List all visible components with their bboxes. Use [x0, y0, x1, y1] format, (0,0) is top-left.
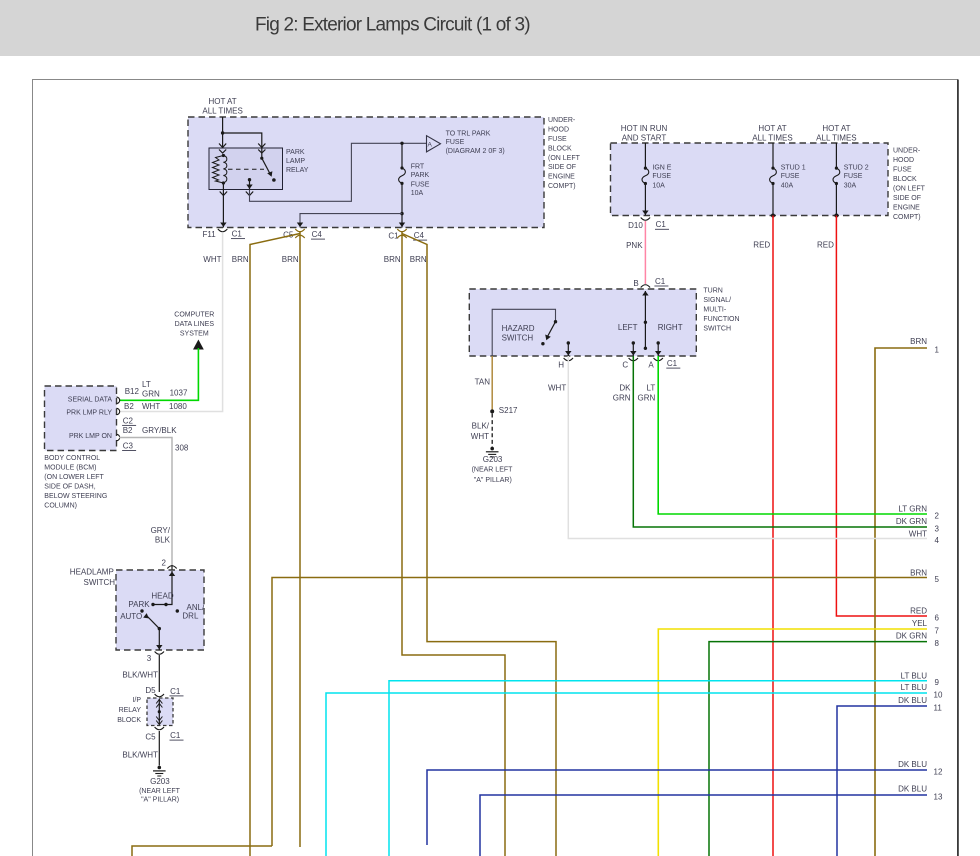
wire BRN from C1C4 via jog to x505 [402, 231, 505, 856]
connector cup D10 [641, 218, 650, 221]
turn signal lever tip dot [644, 347, 647, 350]
pin C1 underline (D10) [655, 228, 669, 230]
svg-text:BRN: BRN [410, 255, 427, 264]
svg-text:C1: C1 [170, 731, 181, 740]
connector cup B entry [641, 285, 650, 288]
node fuse bottom junction [400, 212, 403, 215]
node AUTO contact [140, 609, 143, 612]
svg-text:COMPUTERDATA LINESSYSTEM: COMPUTERDATA LINESSYSTEM [174, 311, 214, 337]
headlamp feed wire inside [153, 571, 172, 605]
ground G203 (near headlamp) [153, 766, 166, 776]
relay switch blade arrowhead [267, 171, 272, 177]
svg-text:RED: RED [817, 241, 834, 250]
svg-text:RED: RED [753, 241, 770, 250]
svg-text:1: 1 [935, 346, 940, 355]
svg-text:C1: C1 [655, 277, 666, 286]
connector cup headlamp entry [167, 566, 176, 569]
connector chevrons C5 brown [295, 229, 304, 238]
svg-text:C3: C3 [123, 441, 134, 450]
relay linkage dashed [228, 168, 264, 170]
relay switch wire from top [261, 148, 263, 158]
svg-text:BRN: BRN [232, 255, 249, 264]
svg-text:GRY/BLK: GRY/BLK [142, 426, 177, 435]
wire RED stud1 down [772, 216, 774, 856]
turn signal lever mid dot [644, 321, 647, 324]
svg-text:HEAD: HEAD [151, 592, 173, 601]
park lamp relay U1 box [209, 148, 283, 190]
ground G203 (near hazard) [486, 447, 499, 457]
inductor element of relay coil [223, 156, 226, 184]
svg-text:DK GRN: DK GRN [896, 631, 927, 640]
IP internal node [158, 710, 161, 713]
connector cup H [564, 358, 573, 361]
data line arrow up [193, 340, 204, 350]
svg-text:B2: B2 [123, 426, 133, 435]
fuse F4 element [833, 168, 840, 183]
wire BRN C1C4 diagonal branch via jog to x556 [402, 234, 556, 856]
svg-text:3: 3 [935, 525, 940, 534]
wire 1 BRN horizontal [875, 348, 927, 856]
BCM pin bump serial data [117, 397, 120, 403]
svg-text:BLK/WHT: BLK/WHT [122, 750, 158, 759]
headlamp common wire down [158, 629, 160, 650]
pin C2 underline [122, 424, 136, 426]
wire 13 DK BLU [480, 795, 927, 856]
connector cup IP exit [155, 727, 164, 730]
wire BRN from C5 vertical [299, 231, 301, 847]
fuse F2 wire bottom [644, 184, 646, 216]
BCM pin bump prk lmp rly [117, 408, 120, 414]
C1 C4 exit arrow [399, 223, 405, 228]
header bar [0, 0, 980, 56]
svg-text:WHT: WHT [142, 402, 160, 411]
H exit arrow [565, 351, 571, 356]
pin C4 right underline [413, 239, 427, 241]
wire TAN hazard feed [491, 356, 493, 411]
node RIGHT contact [657, 341, 660, 344]
wire BLK/WHT to ground [158, 731, 160, 766]
wire 5 BRN bottom horizontal [132, 846, 272, 856]
wire BRN C5 diagonal branch [250, 234, 300, 856]
svg-text:C1: C1 [667, 359, 678, 368]
connector cup F11 [218, 229, 227, 232]
svg-text:YEL: YEL [912, 619, 928, 628]
wire 8 DK GRN [709, 642, 927, 856]
relay common wire down [249, 180, 251, 190]
svg-text:3: 3 [147, 654, 152, 663]
wire branch to relay switch terminal [223, 133, 262, 148]
svg-text:9: 9 [935, 678, 940, 687]
pin C1 underline (HCA) [666, 367, 680, 369]
svg-text:4: 4 [935, 536, 940, 545]
svg-text:HOT IN RUNAND START: HOT IN RUNAND START [621, 124, 668, 142]
svg-text:HAZARDSWITCH: HAZARDSWITCH [502, 324, 535, 343]
svg-text:BRN: BRN [910, 337, 927, 346]
hazard switch pivot dot [554, 320, 557, 323]
fuse F1 top dot [400, 166, 403, 169]
pin C3 underline [122, 450, 136, 452]
diagram frame right border [957, 80, 959, 856]
svg-text:DK BLU: DK BLU [898, 696, 927, 705]
fuse F1 FRT PARK FUSE wire top [401, 143, 403, 168]
fuse F4 top dot [835, 167, 838, 170]
svg-text:8: 8 [935, 639, 940, 648]
node headlamp common [158, 627, 161, 630]
svg-text:BRN: BRN [282, 255, 299, 264]
svg-text:WHT: WHT [909, 530, 927, 539]
svg-text:6: 6 [935, 614, 940, 623]
svg-text:DK GRN: DK GRN [896, 517, 927, 526]
connector cup A [654, 358, 663, 361]
svg-text:C1: C1 [232, 230, 243, 239]
IP relay block internal wire [158, 699, 160, 725]
svg-text:H: H [558, 361, 564, 370]
svg-text:WHT: WHT [203, 255, 221, 264]
pin C1 underline (D5) [170, 695, 184, 697]
svg-text:1037: 1037 [170, 388, 188, 397]
connector chevron relay bottom coil [220, 192, 227, 196]
C exit arrow [630, 351, 636, 356]
splice S217 [490, 409, 494, 413]
svg-text:C: C [622, 361, 628, 370]
svg-text:TAN: TAN [475, 377, 491, 386]
svg-text:G203: G203 [150, 777, 170, 786]
wire 7 YEL [658, 629, 927, 856]
svg-text:LT BLU: LT BLU [901, 683, 928, 692]
relay coil K1 bottom node [222, 181, 225, 184]
pin C1 underline (IP) [170, 739, 184, 741]
C5 exit arrow [297, 223, 303, 228]
fuse F1 wire bottom [401, 183, 403, 227]
wire GRY/BLK from BCM to headlamp switch [119, 438, 172, 566]
svg-text:D5: D5 [145, 686, 156, 695]
wire H contact to exit [567, 343, 569, 356]
pin C1 underline [231, 238, 245, 240]
hazard switch contact dot [541, 342, 544, 345]
IP internal entry arrow [156, 700, 162, 708]
wire feed into fuse block 1 [222, 117, 224, 148]
node PARK contact [151, 603, 154, 606]
relay common exit arrow [246, 185, 252, 190]
relay coil K1 top node [222, 154, 225, 157]
headlamp entry arrow [169, 572, 175, 577]
node STUD2 output junction [834, 214, 838, 218]
svg-text:10: 10 [934, 691, 943, 700]
svg-text:C1: C1 [656, 220, 667, 229]
svg-text:5: 5 [935, 575, 940, 584]
svg-text:C4: C4 [312, 230, 323, 239]
svg-text:C2: C2 [123, 416, 134, 425]
svg-text:308: 308 [175, 443, 189, 452]
pin C1 underline (B) [654, 285, 668, 287]
svg-text:A: A [428, 142, 433, 149]
pin C4 underline [311, 238, 325, 240]
fuse F3 STUD 1 wire top [772, 143, 774, 168]
node LEFT contact [632, 341, 635, 344]
svg-text:PNK: PNK [626, 241, 643, 250]
wire RIGHT contact to A exit [657, 343, 659, 356]
svg-text:B2: B2 [124, 402, 134, 411]
node junction dot B+ [221, 131, 224, 134]
svg-text:Fig 2: Exterior Lamps Circuit: Fig 2: Exterior Lamps Circuit (1 of 3) [255, 15, 530, 36]
svg-text:2: 2 [935, 512, 940, 521]
svg-text:(NEAR LEFT"A" PILLAR): (NEAR LEFT"A" PILLAR) [139, 788, 181, 804]
body control module box [45, 386, 117, 451]
svg-text:PRK LMP ON: PRK LMP ON [69, 433, 112, 440]
wire 4 WHT from H pin [568, 356, 927, 539]
wire 12 DK BLU [427, 770, 927, 845]
svg-text:RIGHT: RIGHT [658, 323, 683, 332]
resistor element of relay coil [213, 156, 224, 184]
IP relay block box [147, 698, 173, 726]
headlamp switch blade arrowhead [143, 613, 149, 618]
headlamp exit arrow [156, 645, 162, 650]
turn signal lever wire [644, 291, 646, 348]
fuse F2 element [642, 168, 649, 183]
hazard feed wire inside box [492, 309, 555, 356]
fuse F1 bottom dot [400, 182, 403, 185]
wire RED stud2 to wire 6 [836, 216, 927, 617]
svg-text:11: 11 [934, 704, 943, 713]
fuse F2 exit arrow [642, 211, 648, 216]
svg-text:LT GRN: LT GRN [898, 504, 927, 513]
wire fuse bottom to C5 exit [300, 214, 402, 228]
fuse F3 element [770, 168, 777, 183]
IP internal exit arrow [156, 717, 162, 725]
connector chevrons C1C4 brown [397, 229, 406, 238]
turn signal lever entry arrow [642, 291, 648, 296]
svg-text:BRN: BRN [384, 255, 401, 264]
C1 F11 exit arrow [220, 223, 226, 228]
svg-text:F11: F11 [203, 230, 217, 239]
fuse F4 wire bottom [835, 184, 837, 216]
underhood fuse block 1 (left) [188, 117, 544, 228]
svg-text:13: 13 [934, 793, 943, 802]
hazard switch blade arrowhead [545, 335, 551, 341]
wire relay common to fuse node [250, 143, 427, 201]
fuse F3 wire bottom [772, 184, 774, 216]
wire black stub into headlamp box [171, 565, 173, 571]
wire BLK/WHT dashed to ground [491, 414, 493, 448]
wire BLK/WHT to IP relay block [158, 655, 160, 692]
wire 2 LT GRN from A pin [658, 356, 927, 514]
node HEAD contact [164, 603, 167, 606]
BCM pin bump prk lmp on [117, 434, 120, 440]
relay switch pivot [260, 157, 263, 160]
svg-text:DK BLU: DK BLU [898, 784, 927, 793]
node fuse top junction [400, 142, 403, 145]
underhood fuse block 2 (right) [611, 143, 889, 216]
svg-text:C1: C1 [388, 232, 399, 241]
svg-text:B: B [633, 279, 638, 288]
svg-text:S217: S217 [499, 406, 518, 415]
node H contact [567, 341, 570, 344]
wire LEFT contact to C exit [632, 343, 634, 356]
svg-text:C1: C1 [170, 687, 181, 696]
wire 5 BRN horizontal [272, 578, 927, 847]
svg-text:A: A [648, 361, 654, 370]
fuse F1 element [399, 168, 406, 183]
svg-text:DK BLU: DK BLU [898, 760, 927, 769]
wire LT GRN serial data [119, 348, 198, 400]
node ANL/DRL contact [176, 609, 179, 612]
off-page connector triangle A [427, 136, 441, 152]
wire 11 DK BLU [837, 706, 927, 856]
hazard switch blade [548, 322, 556, 337]
svg-text:WHT: WHT [548, 384, 566, 393]
headlamp switch blade [147, 616, 160, 629]
svg-text:1080: 1080 [169, 402, 187, 411]
connector chevron relay top pin 2 [258, 144, 265, 154]
svg-text:AUTO: AUTO [120, 612, 142, 621]
wire WHT from F11 to BCM [119, 233, 223, 412]
svg-text:G203: G203 [483, 455, 503, 464]
svg-text:BRN: BRN [910, 568, 927, 577]
wire 9 LT BLU [389, 681, 927, 856]
svg-text:D10: D10 [628, 221, 643, 230]
svg-text:LEFT: LEFT [618, 323, 638, 332]
svg-text:7: 7 [935, 627, 940, 636]
connector cup IP entry [155, 694, 164, 697]
fuse F4 STUD 2 wire top [835, 143, 837, 168]
A exit arrow [655, 351, 661, 356]
connector cup C [629, 358, 638, 361]
node STUD1 output junction [771, 214, 775, 218]
svg-text:PRK LMP RLY: PRK LMP RLY [66, 409, 112, 416]
wire PNK [644, 221, 646, 284]
wire 3 DK GRN from C pin [633, 356, 927, 527]
turn signal multifunction switch box [469, 289, 696, 356]
fuse F2 bottom dot [644, 182, 647, 185]
headlamp switch box [116, 570, 204, 650]
fuse F4 bottom dot [835, 182, 838, 185]
connector cup headlamp exit [155, 652, 164, 655]
svg-text:BLK/WHT: BLK/WHT [471, 422, 490, 441]
fuse F2 top dot [644, 167, 647, 170]
svg-text:B12: B12 [125, 387, 140, 396]
svg-text:C5: C5 [145, 733, 156, 742]
relay switch blade Q [262, 158, 271, 175]
svg-text:LT BLU: LT BLU [901, 671, 928, 680]
svg-text:12: 12 [934, 768, 943, 777]
svg-text:BLK/WHT: BLK/WHT [122, 670, 158, 679]
fuse F2 IGN E wire top [644, 143, 646, 168]
wire 10 LT BLU [326, 693, 927, 856]
fuse F3 top dot [771, 167, 774, 170]
relay coil exit wire down [222, 183, 224, 228]
svg-text:2: 2 [162, 559, 167, 568]
connector chevron relay bottom common [246, 192, 253, 196]
svg-text:SERIAL DATA: SERIAL DATA [68, 396, 113, 403]
connector chevron relay top pin 1 [219, 144, 226, 154]
relay common terminal node [248, 178, 251, 181]
relay switch contact dot [272, 178, 276, 182]
svg-text:RED: RED [910, 607, 927, 616]
svg-text:PARK: PARK [128, 600, 150, 609]
fuse F3 bottom dot [771, 182, 774, 185]
